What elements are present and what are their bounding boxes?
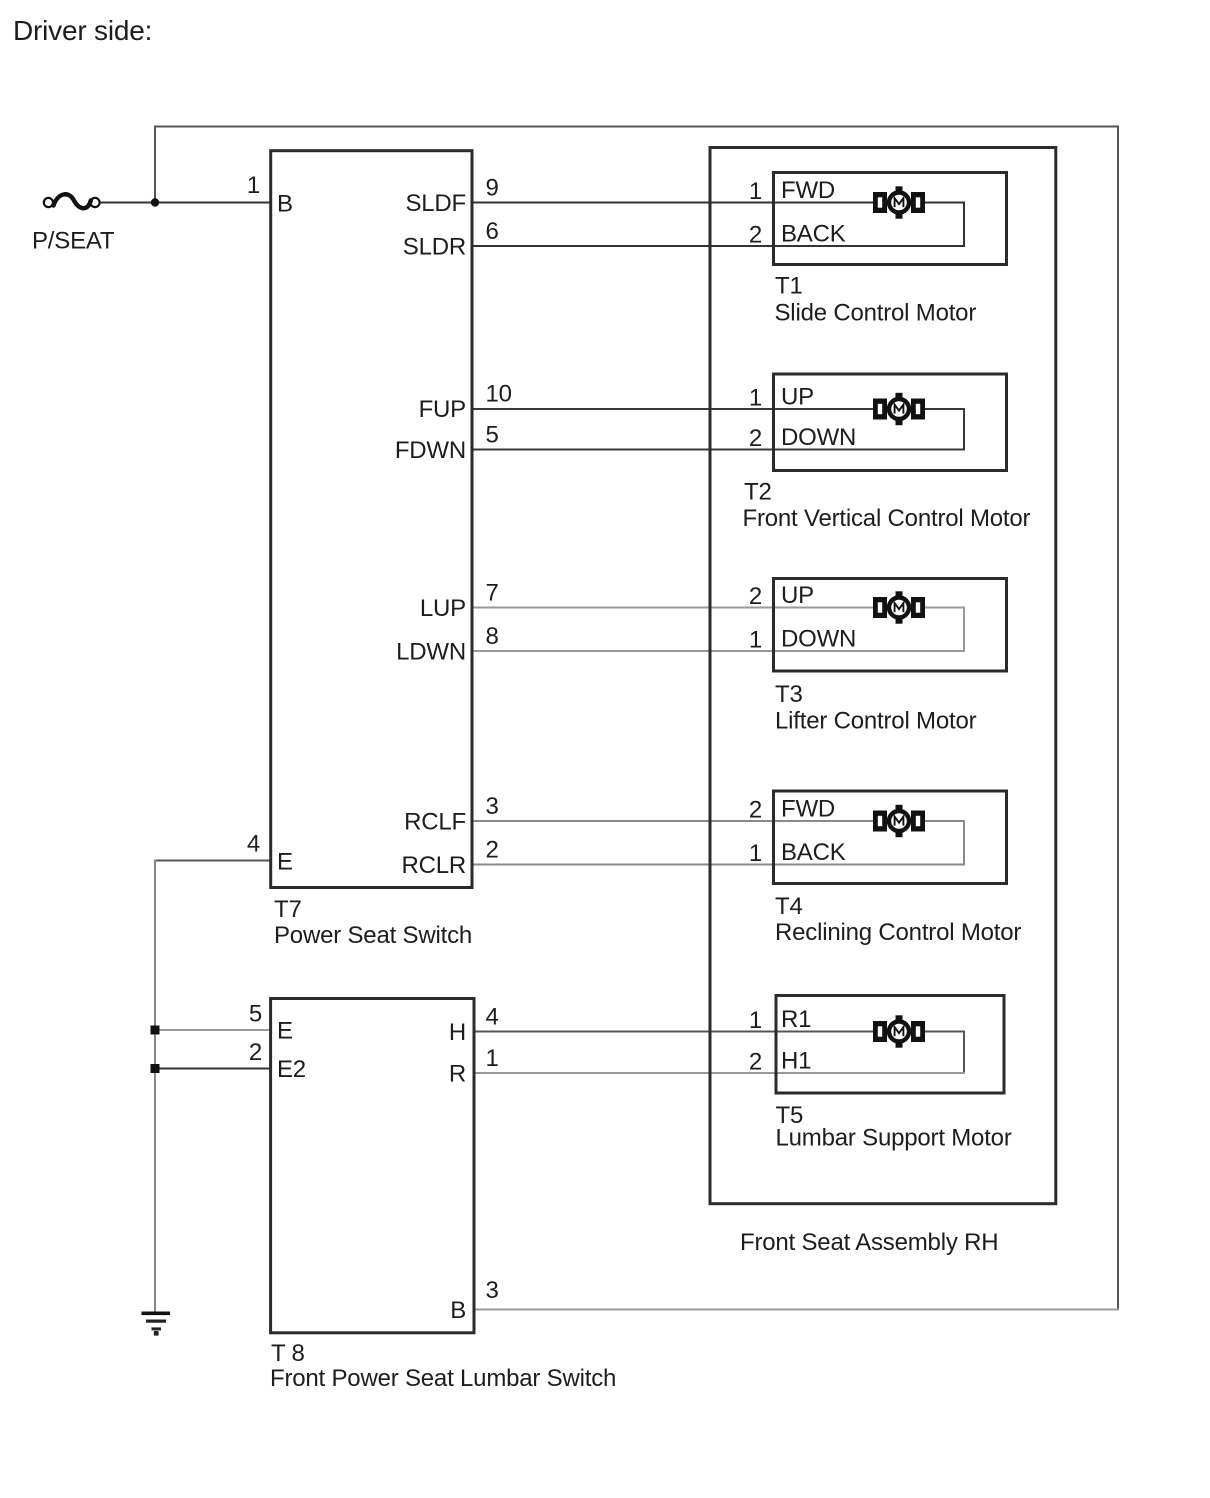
svg-text:Front Power Seat Lumbar Switch: Front Power Seat Lumbar Switch [270,1365,616,1392]
svg-text:1: 1 [749,178,762,205]
svg-text:LUP: LUP [420,595,466,622]
svg-text:T1: T1 [775,273,803,300]
svg-text:R: R [449,1061,466,1088]
svg-text:Lumbar Support Motor: Lumbar Support Motor [776,1125,1012,1152]
svg-text:1: 1 [247,172,260,199]
svg-text:2: 2 [749,583,762,610]
svg-text:2: 2 [749,425,762,452]
svg-text:FUP: FUP [419,396,466,423]
svg-text:4: 4 [486,1004,499,1031]
svg-text:DOWN: DOWN [781,424,856,451]
svg-text:B: B [450,1297,466,1324]
svg-text:4: 4 [247,831,260,858]
svg-text:3: 3 [486,793,499,820]
svg-text:Lifter Control Motor: Lifter Control Motor [775,708,977,735]
svg-text:E2: E2 [277,1056,306,1083]
svg-text:1: 1 [749,840,762,867]
svg-text:1: 1 [749,627,762,654]
svg-text:B: B [277,191,293,218]
svg-text:DOWN: DOWN [781,626,856,653]
svg-text:P/SEAT: P/SEAT [32,228,115,255]
svg-text:UP: UP [781,384,814,411]
svg-text:Front Seat Assembly RH: Front Seat Assembly RH [740,1229,998,1256]
svg-text:RCLF: RCLF [404,809,466,836]
svg-text:2: 2 [249,1039,262,1066]
svg-text:FWD: FWD [781,796,835,823]
svg-text:H: H [449,1019,466,1046]
svg-text:T7: T7 [274,896,302,923]
svg-text:Driver side:: Driver side: [13,15,152,46]
svg-text:T4: T4 [775,893,803,920]
svg-text:6: 6 [486,218,499,245]
svg-text:10: 10 [486,381,512,408]
svg-text:5: 5 [249,1001,262,1028]
svg-text:FDWN: FDWN [395,437,466,464]
svg-text:1: 1 [486,1045,499,1072]
svg-text:8: 8 [486,623,499,650]
svg-text:R1: R1 [781,1006,811,1033]
svg-text:H1: H1 [781,1048,811,1075]
svg-text:1: 1 [749,1007,762,1034]
svg-text:T3: T3 [775,681,803,708]
svg-text:E: E [277,849,293,876]
svg-text:BACK: BACK [781,221,846,248]
svg-text:FWD: FWD [781,177,835,204]
svg-text:SLDF: SLDF [405,190,466,217]
svg-text:3: 3 [486,1277,499,1304]
svg-text:2: 2 [749,797,762,824]
svg-text:Slide Control Motor: Slide Control Motor [775,300,977,327]
svg-text:2: 2 [749,1049,762,1076]
svg-text:SLDR: SLDR [403,234,466,261]
svg-text:T2: T2 [744,479,772,506]
svg-text:5: 5 [486,422,499,449]
svg-text:BACK: BACK [781,839,846,866]
svg-text:RCLR: RCLR [401,852,466,879]
svg-text:2: 2 [486,837,499,864]
svg-text:Power Seat Switch: Power Seat Switch [274,922,472,949]
svg-text:E: E [277,1018,293,1045]
svg-text:2: 2 [749,222,762,249]
svg-text:Reclining Control Motor: Reclining Control Motor [775,919,1021,946]
svg-text:UP: UP [781,582,814,609]
svg-text:7: 7 [486,580,499,607]
svg-text:LDWN: LDWN [396,639,466,666]
svg-text:9: 9 [486,175,499,202]
svg-text:1: 1 [749,385,762,412]
svg-text:Front Vertical Control Motor: Front Vertical Control Motor [743,505,1031,532]
svg-text:T 8: T 8 [271,1340,305,1367]
